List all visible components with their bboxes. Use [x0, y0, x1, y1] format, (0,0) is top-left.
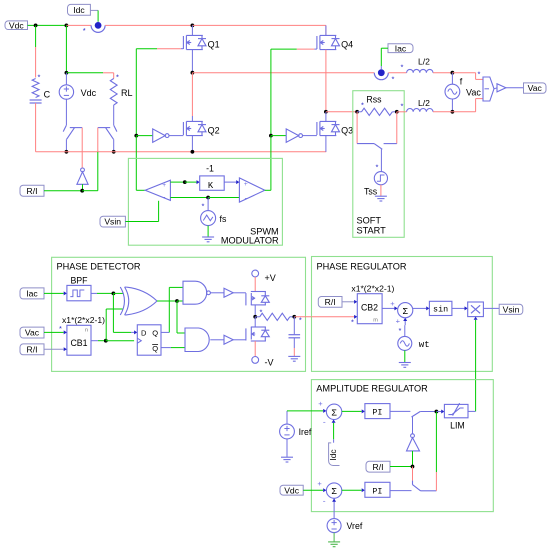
label Vac (output) — [524, 83, 547, 93]
svg-text:BPF: BPF — [70, 275, 88, 285]
svg-text:*: * — [202, 202, 205, 211]
inverter U7 (Q3 gate) — [286, 129, 299, 142]
svg-text:-: - — [323, 495, 326, 505]
amplitude regulator box — [311, 380, 493, 512]
switch S1 (Vdc side) — [63, 125, 82, 139]
svg-text:x1*(2*x2-1): x1*(2*x2-1) — [62, 315, 105, 325]
node junction dot — [435, 410, 439, 414]
svg-text:+: + — [244, 181, 248, 188]
node junction dot — [65, 150, 69, 154]
svg-text:Vdc: Vdc — [9, 20, 25, 30]
transistor Q2 — [191, 116, 193, 121]
svg-text:Vac: Vac — [528, 83, 543, 93]
wire — [82, 190, 98, 192]
nand gate U12 — [183, 281, 207, 304]
resistor Rf — [255, 316, 260, 318]
node junction dot — [134, 134, 138, 138]
svg-text:PHASE REGULATOR: PHASE REGULATOR — [317, 261, 407, 271]
wire — [65, 99, 67, 125]
wire — [35, 25, 37, 47]
svg-text:Σ: Σ — [331, 408, 337, 418]
wire — [91, 340, 98, 342]
svg-text:PI: PI — [372, 486, 382, 496]
wire — [176, 301, 178, 333]
wire soft-start bypass left — [356, 112, 358, 144]
label Iac (input) — [20, 288, 44, 299]
svg-text:Q4: Q4 — [341, 39, 353, 49]
svg-text:+: + — [162, 182, 166, 189]
wire — [388, 72, 406, 74]
svg-text:D: D — [141, 329, 147, 338]
node junction dot — [175, 299, 179, 303]
switch S2 (RL side) — [98, 125, 117, 139]
svg-text:C: C — [44, 90, 51, 100]
wire — [433, 72, 452, 74]
node junction dot — [191, 24, 195, 28]
wire — [413, 307, 426, 309]
wire — [169, 286, 183, 288]
svg-text:Q: Q — [152, 329, 158, 338]
label Vdc (feedback) — [280, 485, 303, 495]
svg-text:-: - — [163, 193, 166, 202]
svg-text:*: * — [399, 326, 402, 335]
summer U21 — [326, 483, 341, 498]
svg-text:Iac: Iac — [26, 289, 38, 299]
wire — [325, 136, 327, 152]
wire — [106, 340, 134, 342]
wire — [325, 50, 327, 112]
wire — [451, 99, 453, 112]
wire — [333, 498, 335, 518]
label Vdc (dc bus) — [5, 21, 28, 30]
svg-text:*: * — [38, 73, 41, 82]
phase regulator box — [312, 257, 493, 372]
wire — [342, 489, 362, 491]
node junction dot — [451, 110, 455, 114]
svg-text:Vac: Vac — [25, 328, 40, 338]
phase detector box — [52, 257, 306, 371]
wire ac lower rail — [326, 111, 357, 113]
svg-text:+V: +V — [265, 273, 276, 283]
source Iref — [280, 424, 295, 439]
wire — [208, 197, 239, 199]
wire — [483, 307, 499, 309]
wire — [135, 136, 137, 191]
svg-text:*: * — [401, 102, 404, 111]
wire soft-start bypass right — [396, 112, 398, 144]
wire — [265, 189, 271, 191]
wire — [475, 320, 477, 328]
ground — [380, 185, 382, 196]
controller PI (current) — [365, 404, 390, 419]
wire — [169, 135, 183, 137]
node junction dot — [411, 465, 415, 469]
wire — [342, 410, 362, 412]
node junction dot — [292, 315, 296, 319]
wire — [161, 347, 171, 349]
gain block K (-1) — [200, 176, 225, 190]
wire — [170, 197, 208, 199]
flip-flop U14 (D) — [137, 325, 161, 355]
svg-text:wt: wt — [419, 340, 430, 350]
wire — [325, 25, 327, 35]
soft start box — [353, 91, 404, 238]
node junction dot — [183, 180, 187, 184]
svg-text:f: f — [460, 77, 463, 87]
wire — [207, 198, 209, 211]
wire — [168, 287, 170, 332]
wire phase-leg midbus — [192, 72, 374, 74]
transistor M1 (upper) — [246, 292, 269, 306]
wire — [113, 139, 115, 152]
wire — [113, 105, 115, 125]
wire — [44, 348, 64, 350]
switch Sss (soft start) — [357, 144, 397, 150]
ground — [288, 356, 300, 361]
node -V — [252, 357, 259, 364]
svg-text:Tss: Tss — [364, 187, 378, 197]
node junction dot — [65, 71, 69, 75]
svg-text:-: - — [323, 416, 326, 426]
wire — [224, 181, 236, 183]
svg-text:K: K — [208, 181, 214, 191]
wire — [191, 50, 193, 73]
wire — [177, 300, 183, 302]
wire — [436, 411, 441, 413]
wire — [435, 472, 437, 491]
svg-text:*: * — [401, 63, 404, 72]
node junction dot — [112, 150, 116, 154]
svg-text:START: START — [357, 226, 387, 236]
transistor M2 (lower) — [254, 317, 256, 327]
svg-text:AMPLITUDE REGULATOR: AMPLITUDE REGULATOR — [316, 383, 428, 393]
wire — [44, 292, 64, 294]
wire — [157, 300, 177, 302]
wire gate Q4 — [271, 48, 297, 50]
wire — [113, 73, 115, 79]
wire — [65, 25, 67, 72]
wire — [192, 24, 326, 26]
transistor Q4 — [325, 25, 327, 35]
wire — [390, 466, 413, 468]
wire — [271, 135, 286, 137]
node junction dot — [191, 71, 195, 75]
math block CB1 — [67, 325, 91, 355]
wire — [412, 417, 414, 434]
svg-text:*: * — [478, 70, 481, 79]
svg-text:+: + — [317, 479, 322, 488]
wire (amplitude feed) — [475, 328, 477, 411]
svg-text:*: * — [392, 75, 395, 84]
svg-text:+: + — [390, 299, 395, 308]
wire — [91, 292, 97, 294]
wire — [404, 321, 406, 325]
svg-text:Vref: Vref — [347, 521, 363, 531]
limiter LIM — [444, 404, 468, 417]
label Vsin (output) — [499, 304, 523, 314]
svg-text:R/I: R/I — [27, 344, 38, 354]
source Vref — [327, 519, 341, 533]
wire — [44, 190, 82, 192]
wire — [113, 292, 123, 294]
svg-text:m: m — [373, 318, 378, 324]
svg-text:CB1: CB1 — [70, 338, 87, 348]
source wt (ramp) — [398, 336, 412, 350]
svg-text:SOFT: SOFT — [357, 216, 382, 226]
svg-text:Iac: Iac — [395, 43, 407, 53]
wire — [185, 181, 197, 183]
wire — [303, 489, 323, 491]
current sensor Idc — [97, 22, 99, 26]
svg-text:Q3: Q3 — [341, 125, 353, 135]
wire — [112, 293, 114, 332]
wire — [254, 341, 256, 357]
wire — [135, 49, 137, 136]
switch S3 (upper) — [412, 412, 437, 418]
inverter U6 (Q2 gate) — [153, 129, 166, 142]
wire — [97, 152, 99, 191]
voltage source Vdc — [65, 73, 67, 85]
label R/I (select) — [366, 461, 390, 472]
wire — [158, 201, 160, 222]
filter BPF — [67, 285, 91, 300]
node junction dot — [104, 339, 108, 343]
wire — [381, 47, 388, 49]
wire — [210, 292, 224, 294]
wire — [506, 87, 524, 89]
transistor Q3 — [317, 121, 340, 135]
source Tss (step) — [374, 172, 387, 185]
wire — [412, 467, 414, 481]
svg-text:Vsin: Vsin — [104, 217, 121, 227]
svg-text:Q2: Q2 — [208, 125, 220, 135]
wire — [113, 331, 131, 333]
label R/I (input) — [20, 344, 44, 355]
wire vac sense top — [452, 72, 475, 74]
function block sin — [429, 301, 452, 315]
wire — [136, 189, 145, 191]
wire vac sense bottom — [452, 111, 475, 113]
label Vsin (reference in) — [100, 216, 125, 227]
transistor Q1 — [191, 25, 193, 35]
current sensor Iac — [374, 73, 388, 80]
ground — [333, 533, 335, 542]
wire — [191, 136, 193, 152]
label R/I (input) — [318, 297, 342, 308]
svg-text:*: * — [116, 73, 119, 82]
and gate U15 — [185, 328, 209, 352]
wire — [66, 72, 103, 74]
svg-text:sin: sin — [433, 305, 448, 315]
node junction dot — [269, 134, 273, 138]
wire — [412, 451, 414, 467]
wire — [170, 181, 184, 183]
svg-text:Σ: Σ — [331, 487, 337, 497]
label Iac — [388, 44, 413, 53]
wire — [435, 412, 437, 473]
wire — [97, 10, 99, 21]
svg-text:PHASE DETECTOR: PHASE DETECTOR — [57, 261, 141, 271]
node junction dot — [80, 189, 84, 193]
wire — [97, 128, 99, 152]
ground — [207, 226, 209, 237]
wire top dc bus — [105, 24, 192, 26]
comparator U9 (left) — [145, 180, 170, 200]
inverter U5 (R/I) — [81, 168, 85, 172]
label Idc — [68, 4, 91, 15]
node junction dot — [34, 24, 38, 28]
node junction dot — [191, 150, 195, 154]
wire — [390, 490, 412, 492]
svg-text:Vac: Vac — [466, 88, 481, 98]
ground — [404, 350, 406, 362]
xor gate U11 — [120, 287, 124, 315]
wire — [233, 292, 246, 294]
wire — [90, 9, 98, 11]
wire — [210, 339, 224, 341]
svg-text:Rss: Rss — [366, 94, 382, 104]
comparator U10 (right) — [239, 178, 264, 202]
label R/I (mode select) — [20, 185, 44, 196]
wire — [136, 135, 152, 137]
node junction dot — [112, 292, 116, 296]
node junction dot — [65, 24, 69, 28]
svg-text:x1*(2*x2-1): x1*(2*x2-1) — [351, 284, 394, 294]
summer U17 — [398, 303, 413, 318]
wire — [342, 301, 354, 303]
svg-text:-V: -V — [265, 358, 274, 368]
wire — [254, 305, 256, 317]
wire — [333, 439, 335, 443]
svg-text:L/2: L/2 — [418, 98, 430, 108]
svg-text:LIM: LIM — [450, 420, 465, 430]
node junction dot — [206, 196, 210, 200]
wire — [103, 72, 114, 74]
wire — [287, 410, 323, 412]
inverter U20 — [411, 434, 415, 438]
label Vac (input) — [20, 327, 44, 338]
wire switch control (inverted R/I) — [81, 128, 83, 168]
node junction dot — [355, 110, 359, 114]
svg-text:Idc: Idc — [73, 5, 85, 15]
wire — [125, 221, 158, 223]
svg-text:Q: Q — [152, 344, 158, 353]
node +V — [252, 270, 259, 277]
wire — [452, 307, 465, 309]
label Idc (feedback) — [329, 443, 340, 466]
node junction dot — [395, 110, 399, 114]
wire — [82, 184, 84, 190]
node junction dot — [451, 71, 455, 75]
node junction dot — [253, 315, 257, 319]
svg-text:R/I: R/I — [27, 186, 38, 196]
svg-text:Vdc: Vdc — [81, 88, 97, 98]
svg-text:Vdc: Vdc — [284, 485, 300, 495]
svg-text:CB2: CB2 — [361, 303, 378, 313]
ac source f (Vac) — [451, 73, 453, 85]
svg-text:fs: fs — [220, 214, 227, 224]
wire — [191, 73, 193, 116]
svg-text:L/2: L/2 — [418, 57, 430, 67]
svg-text:RL: RL — [121, 88, 133, 98]
svg-text:R/I: R/I — [325, 297, 336, 307]
wire — [35, 47, 37, 78]
wire — [177, 332, 185, 334]
wire — [270, 49, 272, 136]
controller PI (voltage) — [365, 482, 390, 497]
wire (phase error in) — [312, 316, 355, 318]
svg-text:Idc: Idc — [328, 449, 338, 460]
svg-text:+: + — [396, 317, 401, 326]
wire — [404, 325, 406, 336]
wire — [286, 411, 288, 424]
wire — [66, 24, 91, 26]
wire — [65, 139, 67, 152]
svg-text:*: * — [59, 324, 62, 333]
wire — [382, 307, 394, 309]
svg-text:PI: PI — [372, 408, 382, 418]
capacitor Cf — [293, 317, 295, 334]
node junction dot — [324, 110, 328, 114]
svg-text:R/I: R/I — [373, 462, 384, 472]
svg-text:MODULATOR: MODULATOR — [221, 236, 279, 246]
wire — [233, 339, 246, 341]
wire — [380, 149, 382, 171]
wire gate Q1 — [136, 48, 157, 50]
svg-text:Vsin: Vsin — [503, 304, 520, 314]
svg-text:+: + — [318, 399, 323, 408]
svg-text:n: n — [85, 328, 88, 334]
wire — [468, 410, 476, 412]
wire — [433, 111, 452, 113]
svg-text:*: * — [351, 318, 354, 327]
wire — [106, 308, 122, 310]
switch S4 (lower) — [412, 481, 436, 491]
buffer U13 — [224, 288, 233, 297]
svg-text:-1: -1 — [206, 164, 214, 174]
summer U19 — [326, 404, 341, 419]
svg-text:Q1: Q1 — [208, 39, 220, 49]
buffer U16 — [224, 335, 233, 344]
wire — [28, 24, 67, 26]
spwm modulator box — [128, 158, 282, 245]
multiplier U18 — [468, 302, 484, 317]
wire — [254, 277, 256, 292]
wire — [105, 309, 107, 341]
ground — [286, 439, 288, 457]
svg-text:*: * — [376, 163, 379, 172]
wire — [270, 136, 272, 191]
svg-text:*: * — [83, 26, 86, 35]
math block CB2 — [357, 294, 382, 324]
wire — [390, 410, 410, 412]
wire — [303, 135, 317, 137]
svg-text:Σ: Σ — [402, 307, 408, 317]
wire — [294, 316, 311, 318]
wire — [397, 111, 407, 113]
wire bottom dc rail — [36, 151, 327, 153]
svg-text:Iref: Iref — [299, 427, 312, 437]
wire — [161, 331, 169, 333]
wire — [35, 103, 37, 152]
buffer U8 — [494, 88, 497, 89]
source fs (carrier) — [201, 211, 216, 226]
